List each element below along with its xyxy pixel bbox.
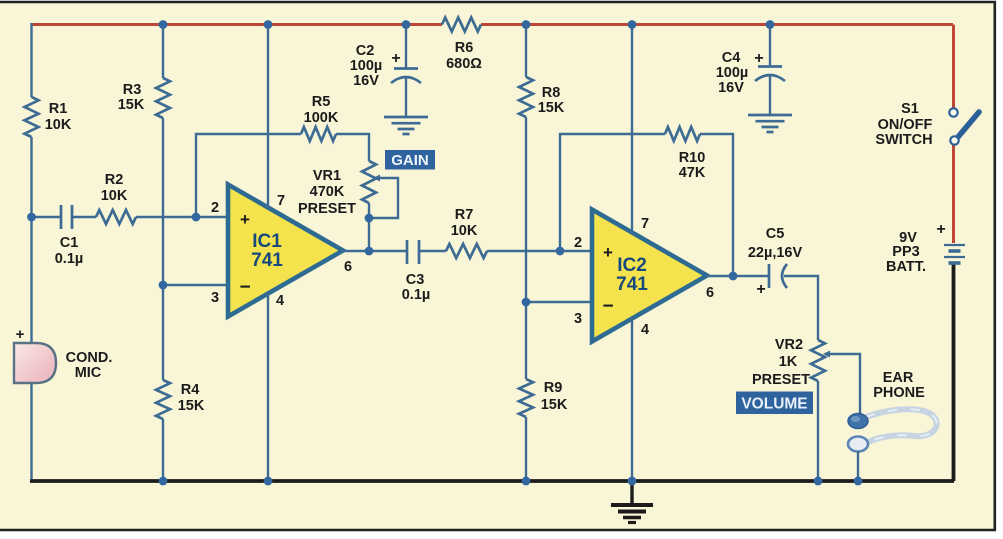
label C2 bbox=[350, 43, 401, 89]
svg-text:R9: R9 bbox=[544, 380, 563, 396]
svg-text:10K: 10K bbox=[45, 117, 72, 133]
wire R9 bottom bbox=[525, 417, 527, 479]
svg-text:R4: R4 bbox=[181, 382, 200, 398]
svg-text:VR1: VR1 bbox=[313, 168, 341, 184]
wire R10 to output bbox=[700, 134, 733, 276]
wire R2 to pin2 bbox=[136, 216, 229, 218]
wire C2 top bbox=[405, 24, 407, 68]
svg-text:IC1: IC1 bbox=[252, 231, 282, 252]
svg-text:15K: 15K bbox=[178, 398, 205, 414]
wire battery negative (black, right) bbox=[952, 262, 956, 481]
wire red right-side to switch bbox=[952, 25, 955, 109]
label COND. MIC bbox=[66, 350, 113, 381]
wire pin4 IC2 bbox=[631, 318, 633, 481]
resistor R8 bbox=[519, 77, 533, 117]
svg-text:R1: R1 bbox=[49, 101, 68, 117]
preset VR1 bbox=[362, 161, 376, 203]
switch S1 bbox=[949, 108, 979, 144]
wire VR1 wiper bbox=[369, 175, 398, 219]
pin 2 label IC2 bbox=[574, 235, 582, 251]
svg-text:6: 6 bbox=[344, 259, 352, 275]
svg-text:4: 4 bbox=[641, 322, 649, 338]
svg-text:3: 3 bbox=[211, 290, 219, 306]
pin 4 label IC1 bbox=[276, 293, 284, 309]
node (ground rail, R4) bbox=[159, 477, 168, 486]
node (rail, C2) bbox=[402, 20, 411, 29]
wire R4 bottom bbox=[162, 419, 164, 479]
label battery bbox=[886, 221, 946, 275]
svg-text:22µ,16V: 22µ,16V bbox=[748, 245, 803, 261]
svg-text:C5: C5 bbox=[766, 226, 785, 242]
pin 3 label IC1 bbox=[211, 290, 219, 306]
wire pin3 IC2 bbox=[526, 301, 593, 303]
svg-text:1K: 1K bbox=[779, 354, 798, 370]
svg-text:6: 6 bbox=[706, 285, 714, 301]
node (rail, R8) bbox=[522, 20, 531, 29]
svg-text:R7: R7 bbox=[455, 207, 474, 223]
svg-text:+: + bbox=[936, 221, 945, 238]
wire R3 top bbox=[162, 24, 164, 78]
earphone cord loop bbox=[866, 409, 937, 442]
wire VR2 bottom bbox=[817, 381, 819, 479]
wire R1 to mic bbox=[30, 137, 32, 343]
svg-text:S1: S1 bbox=[901, 101, 919, 117]
svg-text:4: 4 bbox=[276, 293, 284, 309]
label R9 bbox=[541, 380, 568, 413]
svg-text:7: 7 bbox=[277, 193, 285, 209]
pin 7 label IC2 bbox=[641, 216, 649, 232]
wire ground rail (black, bottom) bbox=[30, 479, 954, 483]
wire C1 to R2 bbox=[72, 216, 96, 218]
svg-text:680Ω: 680Ω bbox=[446, 56, 482, 72]
svg-text:EAR: EAR bbox=[883, 370, 914, 386]
capacitor C3 bbox=[407, 240, 419, 264]
wire C3 to R7 bbox=[419, 250, 446, 252]
node (IC1 output) bbox=[365, 247, 374, 256]
label R1 bbox=[45, 101, 72, 133]
svg-text:+: + bbox=[240, 210, 250, 229]
wire C4 top bbox=[769, 24, 771, 66]
node (R8-R9 / pin3 IC2) bbox=[522, 298, 531, 307]
wire pin7 IC1 bbox=[267, 23, 269, 208]
label VR2 bbox=[752, 337, 810, 388]
label R3 bbox=[118, 82, 145, 113]
capacitor C2 bbox=[391, 69, 421, 118]
wire red switch to battery bbox=[952, 144, 955, 243]
svg-text:ON/OFF: ON/OFF bbox=[878, 117, 933, 133]
label mic plus bbox=[16, 326, 25, 343]
svg-text:100µ: 100µ bbox=[350, 58, 383, 74]
svg-text:VOLUME: VOLUME bbox=[741, 396, 807, 413]
pin 7 label IC1 bbox=[277, 193, 285, 209]
battery B1 (9V PP3) bbox=[944, 245, 965, 263]
wire IC1 out to C3 bbox=[342, 250, 407, 252]
node (ground rail, VR2) bbox=[814, 477, 823, 486]
node (ground rail, pin4 IC2) bbox=[628, 477, 637, 486]
svg-text:741: 741 bbox=[251, 250, 283, 271]
svg-text:C1: C1 bbox=[60, 235, 79, 251]
wire R8 top bbox=[525, 24, 527, 77]
label R10 bbox=[679, 150, 706, 181]
svg-text:R10: R10 bbox=[679, 150, 706, 166]
svg-text:0.1µ: 0.1µ bbox=[402, 287, 431, 303]
svg-text:BATT.: BATT. bbox=[886, 259, 926, 275]
pin 6 label IC2 bbox=[706, 285, 714, 301]
label EAR PHONE bbox=[873, 370, 925, 401]
svg-text:COND.: COND. bbox=[66, 350, 113, 366]
wire mic to ground rail bbox=[30, 383, 32, 479]
wire earphone to ground rail bbox=[857, 451, 859, 481]
svg-text:PP3: PP3 bbox=[892, 244, 919, 260]
resistor R4 bbox=[156, 380, 170, 419]
wire R5 to VR1 bbox=[336, 134, 369, 161]
svg-text:MIC: MIC bbox=[75, 365, 102, 381]
capacitor C5 bbox=[769, 264, 787, 288]
label S1 switch bbox=[875, 101, 932, 148]
svg-text:PRESET: PRESET bbox=[298, 201, 356, 217]
svg-text:10K: 10K bbox=[101, 188, 128, 204]
svg-text:C2: C2 bbox=[356, 43, 375, 59]
wire pin4 IC1 bbox=[267, 293, 269, 479]
label R2 bbox=[101, 172, 128, 204]
svg-text:2: 2 bbox=[574, 235, 582, 251]
wire pin3 IC1 bbox=[163, 284, 229, 286]
wire VR1 to output bbox=[368, 203, 370, 251]
svg-text:R5: R5 bbox=[312, 94, 331, 110]
wire positive rail (red, top) bbox=[32, 23, 954, 26]
svg-text:100µ: 100µ bbox=[716, 65, 749, 81]
svg-text:PRESET: PRESET bbox=[752, 372, 810, 388]
condenser microphone bbox=[14, 343, 56, 383]
svg-text:+: + bbox=[391, 50, 400, 67]
svg-text:C3: C3 bbox=[406, 272, 425, 288]
wire left rail top bbox=[30, 23, 32, 97]
label C3 bbox=[402, 272, 431, 303]
node (rail, C4) bbox=[766, 20, 775, 29]
resistor R1 bbox=[25, 97, 39, 137]
svg-text:GAIN: GAIN bbox=[391, 152, 429, 169]
svg-text:SWITCH: SWITCH bbox=[875, 132, 932, 148]
svg-text:−: − bbox=[239, 277, 250, 298]
label R6 bbox=[446, 40, 482, 72]
pin 3 label IC2 bbox=[574, 311, 582, 327]
op-amp U2 (IC2 741) bbox=[592, 210, 707, 342]
wire IC2 out to C5 bbox=[706, 275, 769, 277]
resistor R3 bbox=[156, 78, 170, 118]
svg-text:+: + bbox=[756, 281, 765, 298]
node (ground rail, pin4 IC1) bbox=[264, 477, 273, 486]
label R8 bbox=[538, 85, 565, 116]
resistor R6 (in supply rail) bbox=[442, 18, 481, 32]
label VOLUME badge bbox=[736, 392, 813, 415]
svg-text:15K: 15K bbox=[118, 97, 145, 113]
wire node to C1 bbox=[32, 216, 62, 218]
label C4 bbox=[716, 50, 764, 96]
svg-text:VR2: VR2 bbox=[775, 337, 803, 353]
svg-text:0.1µ: 0.1µ bbox=[55, 251, 84, 267]
svg-text:10K: 10K bbox=[451, 223, 478, 239]
svg-text:16V: 16V bbox=[353, 73, 379, 89]
op-amp U1 (IC1 741) bbox=[228, 185, 343, 317]
earphone bud 2 bbox=[848, 437, 868, 452]
svg-text:+: + bbox=[754, 50, 763, 67]
svg-text:741: 741 bbox=[616, 274, 648, 295]
node (rail, IC2 pin7) bbox=[628, 20, 637, 29]
node (rail, IC1 pin7) bbox=[264, 20, 273, 29]
node (VR1 wiper) bbox=[365, 214, 374, 223]
resistor R2 bbox=[96, 210, 136, 224]
preset VR2 bbox=[811, 340, 825, 381]
svg-text:47K: 47K bbox=[679, 165, 706, 181]
node (rail, R3) bbox=[159, 20, 168, 29]
wire feedback up bbox=[196, 134, 301, 217]
wire R8-R9 middle bbox=[525, 117, 527, 379]
label C5 bbox=[748, 226, 803, 298]
svg-text:C4: C4 bbox=[722, 50, 741, 66]
node (feedback2 / pin2 IC2) bbox=[556, 247, 565, 256]
label R4 bbox=[178, 382, 205, 414]
wire C5 to VR2 bbox=[784, 276, 818, 340]
svg-text:R2: R2 bbox=[105, 172, 124, 188]
pin 4 label IC2 bbox=[641, 322, 649, 338]
wire pin7 IC2 bbox=[631, 23, 633, 234]
node (ground rail, earphone) bbox=[854, 477, 863, 486]
svg-text:PHONE: PHONE bbox=[873, 385, 925, 401]
svg-text:IC2: IC2 bbox=[617, 255, 647, 276]
node (feedback / pin2 IC1) bbox=[192, 213, 201, 222]
node (ground rail, R9) bbox=[522, 477, 531, 486]
resistor R10 bbox=[665, 127, 700, 141]
capacitor C4 bbox=[755, 67, 785, 116]
earphone bud 1 bbox=[848, 414, 868, 429]
svg-text:+: + bbox=[603, 243, 613, 262]
svg-text:2: 2 bbox=[211, 200, 219, 216]
svg-text:15K: 15K bbox=[538, 100, 565, 116]
pin 2 label IC1 bbox=[211, 200, 219, 216]
wire feedback2 up bbox=[560, 134, 665, 251]
wire R3-R4 middle bbox=[162, 118, 164, 380]
svg-text:15K: 15K bbox=[541, 397, 568, 413]
resistor R5 bbox=[301, 127, 336, 141]
svg-text:+: + bbox=[16, 326, 25, 343]
label R5 bbox=[304, 94, 339, 126]
wire VR2 wiper to earphone bbox=[823, 351, 860, 415]
svg-text:3: 3 bbox=[574, 311, 582, 327]
svg-text:470K: 470K bbox=[310, 184, 345, 200]
svg-text:16V: 16V bbox=[718, 80, 744, 96]
svg-text:R3: R3 bbox=[123, 82, 142, 98]
node (R3-R4 / pin3 IC1) bbox=[159, 281, 168, 290]
ground (main, below rail) bbox=[611, 482, 653, 523]
svg-text:R6: R6 bbox=[455, 40, 474, 56]
wire R7 to pin2 IC2 bbox=[487, 250, 593, 252]
svg-text:R8: R8 bbox=[542, 85, 561, 101]
capacitor C1 bbox=[61, 205, 72, 229]
label C1 bbox=[55, 235, 84, 267]
node (IC2 output) bbox=[729, 272, 738, 281]
label VR1 bbox=[298, 168, 356, 217]
label GAIN badge bbox=[385, 150, 435, 170]
label R7 bbox=[451, 207, 478, 239]
svg-text:100K: 100K bbox=[304, 110, 339, 126]
svg-text:7: 7 bbox=[641, 216, 649, 232]
node (mic / C1) bbox=[27, 213, 36, 222]
ground (C4) bbox=[748, 115, 792, 132]
svg-text:−: − bbox=[602, 296, 613, 317]
ground (C2) bbox=[384, 117, 428, 134]
pin 6 label IC1 bbox=[344, 259, 352, 275]
resistor R9 bbox=[519, 379, 533, 417]
resistor R7 bbox=[446, 244, 487, 258]
